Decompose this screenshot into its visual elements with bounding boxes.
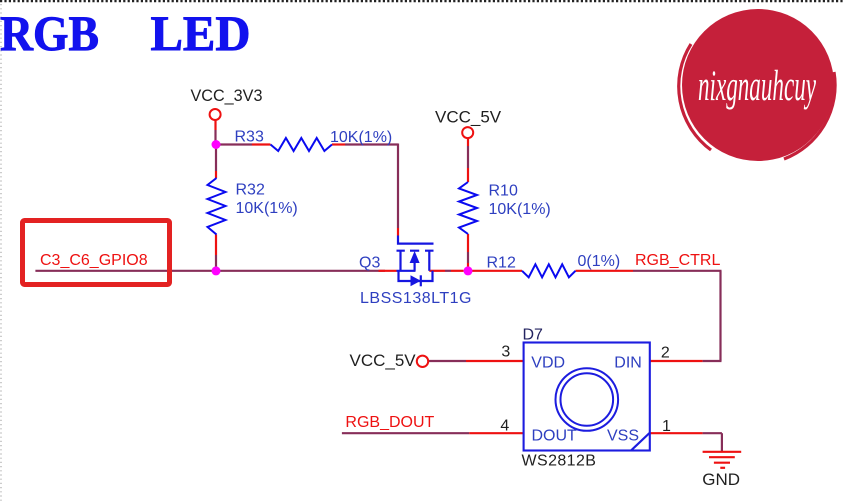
svg-text:VCC_5V: VCC_5V — [350, 351, 417, 370]
svg-text:4: 4 — [500, 418, 509, 435]
svg-text:VCC_3V3: VCC_3V3 — [191, 87, 263, 105]
svg-text:VSS: VSS — [607, 428, 639, 445]
svg-text:1: 1 — [662, 418, 671, 435]
svg-text:D7: D7 — [523, 327, 544, 344]
svg-text:C3_C6_GPIO8: C3_C6_GPIO8 — [40, 252, 148, 269]
svg-text:WS2812B: WS2812B — [522, 453, 597, 470]
svg-text:0(1%): 0(1%) — [578, 253, 621, 270]
svg-text:RGB_CTRL: RGB_CTRL — [635, 252, 720, 269]
svg-text:RGB_DOUT: RGB_DOUT — [345, 414, 434, 431]
svg-text:10K(1%): 10K(1%) — [330, 129, 392, 146]
svg-text:3: 3 — [501, 344, 510, 361]
svg-text:R10: R10 — [489, 183, 518, 200]
svg-text:VCC_5V: VCC_5V — [435, 108, 502, 127]
svg-text:10K(1%): 10K(1%) — [236, 200, 298, 217]
svg-text:R33: R33 — [235, 129, 264, 146]
svg-text:DIN: DIN — [614, 354, 642, 371]
svg-text:LED: LED — [151, 5, 251, 61]
svg-text:R12: R12 — [487, 255, 516, 272]
svg-text:R32: R32 — [236, 182, 265, 199]
svg-text:10K(1%): 10K(1%) — [489, 201, 551, 218]
svg-text:GND: GND — [702, 470, 740, 489]
svg-text:VDD: VDD — [531, 354, 565, 371]
svg-text:2: 2 — [661, 345, 670, 362]
svg-text:DOUT: DOUT — [532, 428, 578, 445]
svg-text:Q3: Q3 — [359, 254, 380, 271]
svg-text:nixgnauhcuy: nixgnauhcuy — [698, 63, 816, 110]
svg-text:RGB: RGB — [0, 5, 99, 61]
svg-text:LBSS138LT1G: LBSS138LT1G — [360, 290, 472, 307]
